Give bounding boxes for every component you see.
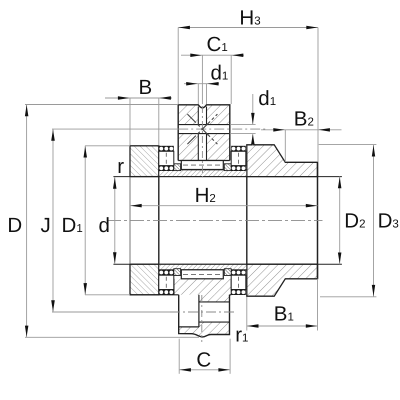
svg-text:C: C — [196, 349, 211, 372]
svg-text:J: J — [41, 214, 51, 237]
svg-text:B: B — [139, 76, 153, 99]
svg-text:r: r — [117, 155, 124, 178]
svg-text:D: D — [7, 214, 22, 237]
svg-text:d: d — [99, 214, 110, 237]
